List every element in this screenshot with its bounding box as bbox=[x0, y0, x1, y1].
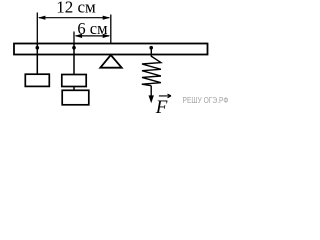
node dot 2 bbox=[72, 46, 76, 50]
hanger wire 2 bbox=[73, 43, 75, 75]
svg-text:РЕШУ ОГЭ.РФ: РЕШУ ОГЭ.РФ bbox=[183, 95, 229, 105]
weight W2 (upper) bbox=[62, 75, 86, 87]
dimension extension line (tick) at fulcrum bbox=[110, 15, 112, 44]
weight W3 (lower) bbox=[62, 90, 89, 105]
dimension extension line (tick) at second hang point bbox=[73, 32, 75, 44]
beam (lever) bbox=[14, 44, 208, 55]
node dot 3 (spring attachment) bbox=[149, 46, 153, 50]
dimension extension line (tick) at left hang point bbox=[36, 13, 38, 44]
fulcrum triangle bbox=[100, 55, 121, 68]
dimension line 12 cm with arrowheads bbox=[38, 16, 110, 20]
svg-text:F: F bbox=[155, 97, 168, 118]
svg-text:6 см: 6 см bbox=[77, 19, 108, 38]
label F with vector arrow bbox=[155, 94, 171, 118]
dimension line 6 cm with arrowheads bbox=[75, 34, 111, 38]
force arrow shaft bbox=[150, 86, 152, 98]
force arrowhead bbox=[149, 95, 154, 103]
spring (sawtooth zigzag) bbox=[142, 48, 161, 86]
connector between stacked weights bbox=[73, 87, 75, 91]
node dot 1 bbox=[36, 46, 40, 50]
weight W1 bbox=[25, 74, 49, 86]
svg-text:12 см: 12 см bbox=[56, 0, 96, 17]
hanger wire 1 bbox=[36, 43, 38, 74]
